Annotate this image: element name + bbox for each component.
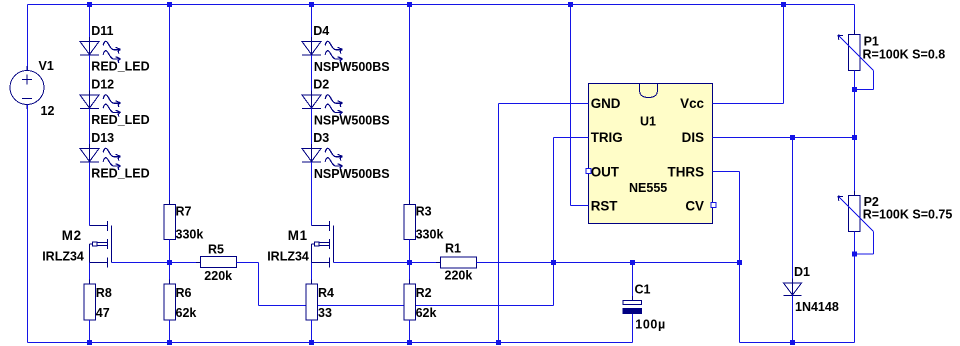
svg-text:M1: M1 [288, 228, 308, 243]
node junction top rail at RST wire [568, 2, 573, 7]
svg-text:D2: D2 [313, 78, 329, 92]
svg-text:R1: R1 [445, 241, 461, 255]
pin THRS label [668, 164, 705, 179]
transistor M1 [267, 221, 333, 268]
node junction ground rail at R6 [167, 340, 172, 345]
node DIS junction at D1 column [790, 135, 795, 140]
node P1 wiper junction [852, 87, 857, 92]
wire P1 bottom to DIS row [854, 71, 856, 138]
label D4 value [314, 60, 390, 74]
LED D11 [80, 24, 120, 63]
node P2 wiper junction [852, 252, 857, 257]
svg-text:R=100K S=0.75: R=100K S=0.75 [863, 208, 953, 222]
wire R5 right elbow [237, 263, 259, 306]
label D3 value [314, 167, 390, 181]
node junction top rail at Vcc wire [781, 2, 786, 7]
LED D12 [80, 78, 120, 117]
svg-text:1N4148: 1N4148 [795, 300, 839, 314]
wire D3 to M1 drain [311, 162, 313, 226]
LED D2 [302, 78, 342, 117]
svg-text:RED_LED: RED_LED [91, 60, 149, 74]
wire D12 to D13 [89, 109, 91, 149]
svg-text:C1: C1 [635, 283, 651, 297]
svg-text:R4: R4 [318, 286, 334, 300]
node TRIG junction [551, 260, 556, 265]
svg-text:330k: 330k [176, 227, 204, 241]
LED D3 [302, 131, 342, 170]
wire R8 to ground rail [89, 320, 91, 343]
label D2 value [314, 113, 390, 127]
wire D2 to D3 [311, 109, 313, 149]
wire R7 to node [169, 240, 171, 263]
svg-text:P1: P1 [864, 35, 879, 49]
voltage source V1 [10, 59, 54, 118]
svg-text:NE555: NE555 [629, 181, 667, 195]
wire gate-drive row [259, 263, 554, 306]
wire D4 to D2 [311, 55, 313, 95]
wire TRIG down to node [553, 138, 555, 263]
wire THRS pin [713, 172, 740, 263]
wire D1 to bottom row [792, 296, 794, 343]
node R3/R2/R1 junction [407, 260, 412, 265]
pin DIS label [682, 130, 704, 145]
svg-text:THRS: THRS [668, 164, 705, 179]
svg-text:12: 12 [41, 104, 55, 118]
transistor M2 [42, 221, 111, 268]
svg-text:GND: GND [591, 96, 621, 111]
node R7/R6/R5 junction [167, 260, 172, 265]
wire DIS row down to P2 [854, 138, 856, 196]
node C1 junction [630, 260, 635, 265]
svg-text:RED_LED: RED_LED [91, 167, 149, 181]
svg-text:R3: R3 [416, 204, 432, 218]
resistor R4 [306, 280, 334, 325]
wire M2 gate down to R8 [89, 244, 91, 285]
wire Vcc pin [713, 5, 784, 104]
node junction bottom row at D1 [790, 340, 795, 345]
wire R6 to ground rail [169, 320, 171, 343]
label D12 value [91, 113, 149, 127]
wire left rail from V1 top [27, 5, 29, 71]
svg-text:62k: 62k [416, 306, 437, 320]
capacitor C1 [623, 283, 666, 332]
wire top rail corner to P1 [854, 5, 856, 35]
svg-text:100µ: 100µ [635, 317, 665, 331]
svg-text:RST: RST [591, 199, 619, 214]
resistor R6 [164, 280, 197, 325]
pin OUT open square [586, 169, 591, 174]
resistor R8 [84, 280, 112, 325]
resistor R1 [436, 241, 481, 282]
wire P2 bottom to bottom row [854, 232, 856, 343]
diode D1 [784, 265, 839, 314]
pin RST label [591, 199, 619, 214]
wire R1 right to TRIG node [477, 262, 554, 264]
svg-text:62k: 62k [176, 306, 197, 320]
wire TRIG node to C1 node [554, 262, 633, 264]
wire R3 to node [409, 240, 411, 263]
node DIS junction at P column [852, 135, 857, 140]
node junction top rail at R3 column [407, 2, 412, 7]
svg-text:R7: R7 [176, 204, 192, 218]
LED D13 [80, 131, 120, 170]
wire node to R1 left [410, 262, 441, 264]
svg-text:D12: D12 [91, 78, 114, 92]
node junction ground rail at R2 [407, 340, 412, 345]
svg-text:R6: R6 [176, 286, 192, 300]
resistor R5 [196, 242, 241, 283]
pin GND label [591, 96, 621, 111]
wire C1 node to THRS node [633, 262, 740, 264]
wire top rail to R3 [409, 5, 411, 205]
wire RST up to top rail [570, 5, 572, 206]
resistor R7 [164, 200, 204, 244]
svg-text:NSPW500BS: NSPW500BS [314, 113, 390, 127]
wire GND down to ground rail [498, 104, 500, 343]
potentiometer P1 [838, 30, 945, 75]
svg-text:R=100K S=0.8: R=100K S=0.8 [863, 47, 946, 61]
svg-text:CV: CV [685, 199, 704, 214]
svg-text:R5: R5 [208, 242, 224, 256]
pin OUT label [591, 164, 620, 179]
node junction top rail at D11 column [87, 2, 92, 7]
svg-text:R2: R2 [416, 286, 432, 300]
svg-text:V1: V1 [39, 59, 54, 73]
svg-text:D4: D4 [313, 24, 329, 38]
svg-text:DIS: DIS [682, 130, 704, 145]
wire THRS bottom row to P2 [740, 342, 855, 344]
wire C1 node down to plate [632, 263, 634, 301]
wire top rail to R7 [169, 5, 171, 205]
pin TRIG label [591, 130, 623, 145]
wire D11 anode from top rail [89, 5, 91, 42]
wire DIS pin row [713, 137, 855, 139]
wire RST pin [571, 205, 589, 207]
wire TRIG pin [554, 137, 589, 139]
wire C1 to ground rail [632, 314, 634, 343]
svg-text:D13: D13 [91, 131, 114, 145]
svg-text:D3: D3 [313, 131, 329, 145]
node junction ground rail at GND wire [496, 340, 501, 345]
svg-text:220k: 220k [445, 269, 473, 283]
wire top rail to D4 [311, 5, 313, 42]
svg-text:TRIG: TRIG [591, 130, 623, 145]
LED D4 [302, 24, 342, 63]
wire P2 wiper loop [855, 232, 874, 255]
svg-text:47: 47 [96, 306, 110, 320]
wire top supply rail [28, 4, 855, 6]
svg-text:IRLZ34: IRLZ34 [42, 250, 84, 264]
node junction top rail at R7 column [167, 2, 172, 7]
svg-text:M2: M2 [62, 228, 82, 243]
op-amp U1 NE555 body [589, 84, 713, 224]
node THRS junction [737, 260, 742, 265]
pin CV open square [711, 203, 716, 208]
svg-text:U1: U1 [640, 115, 656, 129]
pin Vcc label [680, 96, 704, 111]
node junction ground rail at R4 [309, 340, 314, 345]
svg-text:NSPW500BS: NSPW500BS [314, 167, 390, 181]
wire R2 to ground rail [409, 320, 411, 343]
wire node to R2 [409, 263, 411, 285]
resistor R3 [404, 200, 444, 244]
svg-text:NSPW500BS: NSPW500BS [314, 60, 390, 74]
wire D11 to D12 [89, 55, 91, 95]
wire ground rail [28, 342, 633, 344]
potentiometer P2 [838, 191, 952, 236]
svg-text:RED_LED: RED_LED [91, 113, 149, 127]
wire M2 source row to R7/R6 node [112, 262, 170, 264]
svg-text:Vcc: Vcc [680, 96, 704, 111]
svg-text:IRLZ34: IRLZ34 [267, 250, 309, 264]
wire M1 gate down to R4 [311, 244, 313, 285]
svg-text:220k: 220k [204, 269, 232, 283]
label D11 value [91, 60, 149, 74]
node junction ground rail at R8 [87, 340, 92, 345]
svg-text:D1: D1 [794, 265, 810, 279]
wire R4 to ground rail [311, 320, 313, 343]
svg-text:D11: D11 [91, 24, 113, 38]
wire P1 wiper loop [855, 71, 874, 90]
svg-text:330k: 330k [416, 227, 444, 241]
node junction top rail at D4 column [309, 2, 314, 7]
pin CV label [685, 199, 704, 214]
wire V1 bottom to ground rail [27, 105, 29, 343]
wire GND pin [499, 103, 589, 105]
svg-text:R8: R8 [96, 286, 112, 300]
wire DIS node down to D1 [792, 138, 794, 284]
wire node to R6 [169, 263, 171, 285]
wire THRS node down [739, 263, 741, 343]
svg-text:OUT: OUT [591, 164, 620, 179]
label D13 value [91, 167, 149, 181]
resistor R2 [404, 280, 437, 325]
wire M1 source row to R3/R2 node [334, 262, 410, 264]
svg-text:33: 33 [318, 306, 332, 320]
wire D13 to M2 drain [89, 162, 91, 226]
wire node to R5 left [170, 262, 201, 264]
